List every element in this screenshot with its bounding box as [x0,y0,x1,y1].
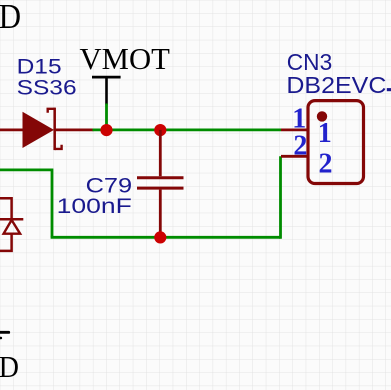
net label fragment (bottom-left, cut off) top stroke [0,331,10,334]
lower-left diode triangle [4,220,21,234]
capacitor C79 bottom lead [159,190,162,238]
capacitor C79 bottom plate [137,187,184,190]
lower-left diode bottom lead [0,234,12,251]
wire cathode of D15 [55,128,94,131]
junction at C79 top [154,124,166,136]
connector CN3 origin dot [317,111,327,121]
capacitor C79 top lead [159,130,162,176]
diode D15 schottky bottom hook [55,145,62,149]
svg-text:DB2EVC: DB2EVC [286,72,386,98]
junction at C79 bottom [154,231,166,243]
svg-text:1: 1 [318,118,332,149]
svg-text:D: D [0,0,21,36]
wire VMOT stem to rail [105,104,108,131]
connector CN3 pin 1 stub [281,128,308,131]
svg-text:2: 2 [319,149,333,180]
svg-text:2: 2 [293,130,307,161]
wire anode of D15 (left rail) [0,128,24,131]
net label fragment (bottom-left, cut off) lower stroke [0,337,2,340]
power symbol VMOT stem [105,77,108,104]
diode D15 schottky top hook [48,109,55,113]
power symbol VMOT bar [92,76,121,79]
capacitor C79 top plate [137,176,184,179]
wire left branch (to off-canvas) [0,170,52,237]
wire bottom rail [51,236,281,239]
svg-text:SS36: SS36 [17,76,77,100]
wire to CN3 pin 2 [279,156,282,238]
diode D15 triangle [23,112,55,148]
label DB2EVC- cut glyph fragment [387,88,391,91]
svg-text:VMOT: VMOT [80,42,171,76]
wire VMOT rail (green) [93,128,282,131]
junction at VMOT [100,124,112,136]
diode D15 schottky bar [53,108,56,151]
connector CN3 body [308,101,364,184]
svg-text:100nF: 100nF [57,194,132,218]
connector CN3 pin 2 stub [281,155,308,158]
svg-text:D: D [0,350,19,384]
lower-left diode cathode bar [0,218,23,221]
lower-left diode top lead [0,198,12,218]
